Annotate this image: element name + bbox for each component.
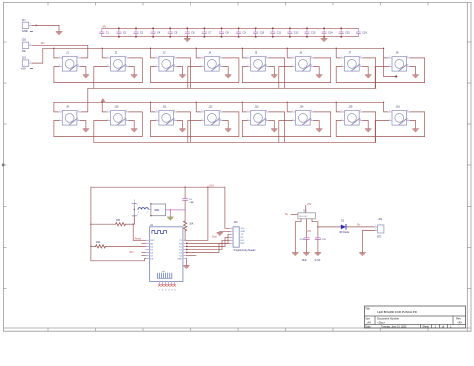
wire	[187, 234, 231, 243]
junction	[287, 48, 288, 49]
wire chain loop	[151, 112, 239, 137]
svg-text:2: 2	[156, 119, 157, 121]
ground	[184, 38, 190, 41]
wire	[187, 240, 231, 249]
ground	[83, 75, 89, 78]
wire chain drop	[279, 67, 292, 89]
junction	[196, 48, 197, 49]
svg-text:2: 2	[137, 214, 138, 216]
svg-text:RF Diode: RF Diode	[340, 232, 350, 234]
junction	[238, 27, 240, 29]
wire	[54, 48, 59, 58]
switch J1	[59, 52, 81, 71]
wire switch row rail	[54, 101, 384, 103]
svg-text:pcb: pcb	[162, 271, 165, 273]
wire	[184, 231, 186, 240]
junction	[118, 36, 120, 38]
wire	[169, 210, 171, 217]
svg-text:4: 4	[126, 56, 127, 58]
svg-text:BT1: BT1	[377, 236, 382, 239]
wire	[133, 239, 146, 241]
svg-text:J16: J16	[396, 106, 401, 109]
junction	[170, 209, 171, 210]
wire	[196, 102, 201, 112]
wire	[291, 213, 298, 215]
ground	[316, 129, 322, 132]
junction	[242, 102, 243, 103]
switch J3	[155, 52, 177, 71]
capacitor C18 (DL CAP)	[183, 199, 195, 204]
resistor R2	[91, 219, 133, 226]
svg-text:J10: J10	[114, 106, 119, 109]
wire	[314, 67, 319, 75]
wire	[336, 48, 341, 58]
ground	[180, 75, 186, 78]
wire	[336, 102, 341, 112]
svg-text:2: 2	[247, 119, 248, 121]
junction	[102, 48, 103, 49]
svg-text:A4: A4	[367, 320, 371, 324]
wire	[410, 67, 415, 75]
resistor R4	[91, 241, 146, 248]
wire last pin2 drop	[375, 67, 388, 89]
ground	[292, 253, 298, 256]
connector J18 (Din)	[22, 39, 33, 54]
wire	[346, 226, 374, 228]
wire	[363, 67, 368, 75]
svg-text:3: 3	[78, 65, 79, 67]
wire	[363, 230, 375, 252]
svg-text:C11: C11	[277, 32, 282, 35]
svg-text:2: 2	[201, 65, 202, 67]
capacitor C6	[185, 28, 195, 36]
junction	[238, 36, 240, 38]
wire chain line	[88, 87, 376, 89]
wire	[177, 121, 182, 129]
wire	[187, 255, 197, 257]
junction	[135, 27, 137, 29]
wire	[102, 102, 107, 112]
svg-text:10K: 10K	[189, 224, 194, 226]
wire chain line	[94, 141, 376, 143]
wire	[81, 67, 86, 75]
svg-text:4: 4	[174, 110, 175, 112]
svg-text:2: 2	[389, 119, 390, 121]
junction	[90, 246, 91, 247]
junction	[186, 246, 188, 248]
ground	[321, 38, 327, 41]
resonator SM1	[150, 203, 165, 216]
svg-text:2: 2	[156, 65, 157, 67]
net stub arrow	[36, 24, 39, 26]
junction	[169, 36, 171, 38]
junction	[102, 102, 103, 103]
svg-text:2: 2	[389, 65, 390, 67]
junction	[340, 36, 342, 38]
svg-text:GND: GND	[241, 231, 246, 233]
junction	[186, 27, 188, 29]
switch J14	[292, 106, 314, 125]
wire	[177, 67, 182, 75]
svg-text:1: 1	[156, 110, 157, 112]
wire	[317, 240, 319, 253]
junction	[152, 36, 154, 38]
diode D1	[340, 221, 350, 234]
svg-text:3: 3	[78, 119, 79, 121]
svg-text:2: 2	[147, 211, 148, 213]
wire	[151, 102, 156, 112]
mcu U1	[146, 224, 187, 292]
wire	[384, 48, 389, 58]
junction	[323, 27, 325, 29]
capacitor C4	[151, 28, 161, 36]
wire	[220, 231, 230, 232]
svg-text:4: 4	[311, 110, 312, 112]
switch J7	[341, 52, 363, 71]
svg-text:C15: C15	[345, 32, 350, 35]
svg-text:4: 4	[311, 56, 312, 58]
ground	[56, 32, 62, 35]
wire +5V rail (mcu)	[91, 186, 225, 188]
wire	[32, 24, 59, 26]
ground	[217, 232, 223, 235]
title block	[365, 306, 466, 329]
junction	[289, 27, 291, 29]
capacitor C9	[236, 28, 246, 36]
junction	[395, 75, 397, 77]
svg-text:1: 1	[201, 56, 202, 58]
junction	[383, 102, 384, 103]
switch J16	[388, 106, 410, 125]
wire switch row rail	[43, 47, 384, 49]
svg-text:Din: Din	[41, 42, 45, 45]
ground	[180, 129, 186, 132]
svg-text:9: 9	[159, 290, 160, 292]
capacitor C2	[117, 28, 127, 36]
wire chain drop	[94, 121, 107, 143]
svg-text:2: 2	[107, 119, 108, 121]
switch J4	[201, 52, 223, 71]
wire chain rise	[363, 58, 376, 88]
svg-text:3: 3	[311, 119, 312, 121]
wire chain loop	[151, 58, 239, 83]
wire chain loop	[54, 58, 142, 83]
svg-text:Dout: Dout	[212, 235, 217, 238]
svg-text:+5V: +5V	[209, 183, 214, 187]
svg-text:2: 2	[341, 65, 342, 67]
wire	[242, 102, 247, 112]
wire chain rise	[177, 58, 191, 88]
svg-text:<Doc>: <Doc>	[377, 320, 385, 324]
svg-text:J21: J21	[378, 218, 383, 221]
svg-text:1: 1	[341, 56, 342, 58]
junction	[242, 48, 243, 49]
capacitor C1	[100, 28, 110, 36]
svg-text:3: 3	[126, 65, 127, 67]
svg-text:3: 3	[360, 65, 361, 67]
wire	[318, 226, 341, 228]
svg-text:J19: J19	[22, 57, 27, 60]
inductor L1	[138, 208, 149, 214]
svg-text:Tuesday, June 13, 2023: Tuesday, June 13, 2023	[381, 326, 407, 329]
ground	[413, 75, 419, 78]
wire chain drop	[188, 67, 201, 89]
capacitor C11	[271, 28, 282, 36]
capacitor C20	[315, 238, 327, 262]
svg-text:1: 1	[247, 56, 248, 58]
junction	[53, 48, 54, 49]
svg-text:J15: J15	[348, 106, 353, 109]
junction	[135, 36, 137, 38]
wire last pin2 drop	[375, 121, 388, 143]
svg-text:C16: C16	[362, 32, 367, 35]
svg-text:3: 3	[220, 65, 221, 67]
svg-text:+5V: +5V	[21, 67, 26, 71]
regulator U2	[298, 210, 316, 219]
wire	[295, 219, 301, 253]
wire chain loop	[336, 112, 424, 137]
svg-text:3: 3	[126, 119, 127, 121]
capacitor C19	[300, 238, 310, 262]
svg-text:1: 1	[138, 211, 139, 213]
svg-text:Title: Title	[365, 308, 370, 311]
switch J6	[292, 52, 314, 71]
junction	[186, 249, 188, 251]
junction	[184, 187, 185, 188]
capacitor C3	[134, 28, 144, 36]
svg-text:3: 3	[360, 119, 361, 121]
junction	[383, 48, 384, 49]
svg-text:3: 3	[407, 65, 408, 67]
svg-text:C14: C14	[328, 32, 333, 35]
capacitor C10	[254, 28, 265, 36]
svg-text:13: 13	[171, 290, 173, 292]
svg-text:+5V: +5V	[102, 24, 107, 28]
svg-text:4: 4	[360, 56, 361, 58]
wire chain drop	[279, 121, 292, 143]
junction	[133, 224, 134, 225]
svg-text:1: 1	[389, 56, 390, 58]
svg-text:2: 2	[292, 65, 293, 67]
svg-text:C12: C12	[294, 32, 299, 35]
switch J13	[247, 106, 269, 125]
junction	[221, 27, 223, 29]
wire	[207, 187, 209, 240]
ground	[131, 129, 137, 132]
ground	[315, 253, 321, 256]
junction	[203, 36, 205, 38]
wire	[58, 25, 60, 31]
svg-text:2: 2	[375, 229, 376, 231]
svg-text:3: 3	[266, 65, 267, 67]
capacitor C12	[288, 28, 299, 36]
wire chain loop	[54, 112, 142, 137]
ground	[271, 129, 277, 132]
wire chain loop	[242, 112, 330, 137]
wire	[81, 121, 86, 129]
junction	[186, 252, 188, 254]
junction	[336, 102, 337, 103]
svg-text:3: 3	[407, 119, 408, 121]
junction	[255, 36, 257, 38]
svg-text:4: 4	[126, 110, 127, 112]
wire	[129, 67, 134, 75]
wire pin1 net stub	[384, 58, 397, 77]
header J20	[230, 221, 246, 247]
capacitor C7	[202, 28, 212, 36]
wire	[196, 48, 201, 58]
wire Din rail	[32, 45, 87, 58]
ground	[225, 129, 231, 132]
svg-text:J13: J13	[255, 106, 260, 109]
wire chain drop	[94, 67, 107, 89]
svg-text:1: 1	[107, 110, 108, 112]
junction	[90, 224, 91, 225]
svg-text:4: 4	[78, 110, 79, 112]
svg-text:2: 2	[59, 119, 60, 121]
ground	[131, 75, 137, 78]
svg-text:Programming Header: Programming Header	[234, 249, 256, 252]
svg-text:+5V: +5V	[307, 203, 312, 206]
ground	[360, 253, 366, 256]
svg-text:10K: 10K	[116, 219, 121, 222]
svg-text:Date:: Date:	[365, 326, 371, 329]
capacitor C5	[168, 28, 178, 36]
svg-text:J18: J18	[22, 39, 27, 42]
svg-text:J14: J14	[299, 106, 304, 109]
wire	[223, 67, 228, 75]
junction	[272, 27, 274, 29]
wire	[184, 200, 186, 221]
wire stub	[142, 255, 146, 257]
svg-text:4: 4	[174, 56, 175, 58]
junction	[134, 209, 135, 210]
junction	[118, 27, 120, 29]
svg-text:4: 4	[407, 110, 408, 112]
ground	[168, 217, 174, 220]
junction	[186, 243, 188, 245]
ground	[184, 266, 190, 269]
wire chain rise	[269, 58, 285, 88]
wire chain rise	[269, 112, 285, 142]
switch J9	[59, 106, 81, 125]
wire	[269, 121, 274, 129]
capacitor C14	[322, 28, 333, 36]
switch J10	[107, 106, 129, 125]
wire reset net	[132, 224, 134, 240]
junction	[221, 36, 223, 38]
svg-text:2: 2	[247, 65, 248, 67]
junction	[150, 102, 151, 103]
wire	[148, 208, 151, 210]
wire chain loop	[242, 58, 330, 83]
wire chain to row 2	[81, 88, 88, 112]
switch J15	[341, 106, 363, 125]
junction	[207, 187, 208, 188]
junction	[287, 102, 288, 103]
battery connector BT1	[374, 218, 384, 239]
wire trunk	[91, 187, 146, 261]
junction	[306, 36, 308, 38]
wire	[184, 187, 186, 199]
svg-text:2: 2	[59, 65, 60, 67]
wire chain loop	[336, 58, 424, 83]
switch J11	[155, 106, 177, 125]
wire	[410, 121, 415, 129]
svg-text:1: 1	[375, 225, 376, 227]
svg-text:1: 1	[107, 56, 108, 58]
svg-text:4: 4	[407, 56, 408, 58]
wire	[314, 121, 319, 129]
svg-text:4: 4	[266, 110, 267, 112]
ground	[83, 129, 89, 132]
wire	[269, 67, 274, 75]
svg-text:4: 4	[220, 56, 221, 58]
wire stub	[142, 252, 146, 254]
svg-text:1: 1	[292, 56, 293, 58]
svg-text:12: 12	[168, 290, 170, 292]
svg-text:1: 1	[247, 110, 248, 112]
svg-text:of: of	[442, 326, 444, 329]
wire cap row bottom rail	[102, 36, 359, 38]
svg-text:J11: J11	[163, 106, 167, 109]
switch J8	[388, 52, 410, 71]
wire +5V feed	[32, 48, 42, 63]
wire	[187, 237, 231, 246]
svg-text:10uF: 10uF	[302, 260, 308, 262]
wire header vcc	[225, 187, 230, 228]
svg-text:1: 1	[201, 110, 202, 112]
svg-text:2: 2	[107, 65, 108, 67]
svg-text:GND: GND	[177, 259, 182, 261]
svg-text:3V3: 3V3	[129, 251, 134, 254]
svg-text:2: 2	[292, 119, 293, 121]
svg-text:3: 3	[311, 65, 312, 67]
capacitor C16	[356, 28, 367, 36]
svg-text:J20: J20	[234, 221, 239, 224]
wire	[305, 205, 307, 213]
svg-text:GND: GND	[22, 29, 28, 33]
ground	[271, 75, 277, 78]
svg-text:4: 4	[220, 110, 221, 112]
svg-text:Din: Din	[22, 49, 26, 53]
ground	[413, 129, 419, 132]
junction	[169, 27, 171, 29]
wire chain rise	[177, 112, 191, 142]
ground	[365, 75, 371, 78]
svg-text:C13: C13	[311, 32, 316, 35]
svg-text:LED BOARD FOR PUNCH PD: LED BOARD FOR PUNCH PD	[377, 310, 417, 314]
svg-text:CAP: CAP	[189, 201, 194, 204]
wire	[384, 102, 389, 112]
wire	[312, 219, 318, 238]
wire	[187, 243, 231, 252]
svg-text:1: 1	[59, 110, 60, 112]
svg-text:RST: RST	[151, 240, 156, 242]
capacitor C13	[305, 28, 316, 36]
svg-text:2: 2	[341, 119, 342, 121]
svg-text:14: 14	[174, 290, 176, 292]
ground	[316, 75, 322, 78]
svg-text:J17: J17	[22, 19, 27, 22]
junction	[323, 36, 325, 38]
svg-text:VCC: VCC	[241, 228, 246, 230]
ground	[225, 75, 231, 78]
svg-text:<R>: <R>	[457, 320, 462, 324]
svg-text:Sheet: Sheet	[422, 326, 429, 329]
svg-text:3: 3	[266, 119, 267, 121]
ground	[365, 129, 371, 132]
